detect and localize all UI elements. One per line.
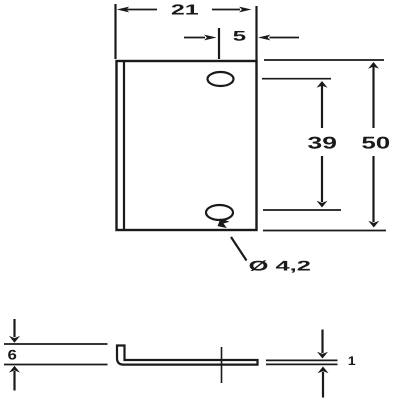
dim 6: value label	[8, 350, 16, 360]
extension line bottom hole center (for dim 39)	[263, 209, 341, 211]
dim 5: left arrowhead (points right)	[204, 35, 216, 41]
dim 1: upper arrow tail	[321, 330, 323, 354]
extension line top hole center (for dim 39)	[262, 78, 331, 80]
dim 50: upper arrowhead (points up)	[368, 62, 379, 69]
dim 21: value label	[172, 4, 198, 14]
dim 1: lower arrowhead (points up)	[318, 367, 329, 374]
dim 50: value label	[362, 137, 389, 149]
dim 39: lower arrowhead (points down)	[317, 201, 328, 208]
dim 39: upper arrowhead (points up)	[317, 81, 328, 88]
dim 6: upper arrowhead (points down)	[9, 336, 20, 343]
dim 50: lower arrowhead (points down)	[368, 221, 379, 228]
bend line (inner left edge)	[123, 61, 125, 231]
dim 6: bottom extension line	[4, 364, 108, 366]
dim 1: bottom extension line	[266, 363, 338, 365]
dim 21: dimension line left part	[125, 9, 157, 11]
dim 21: left arrowhead	[117, 7, 129, 13]
extension line plate bottom (for dim 50)	[263, 230, 386, 232]
dim 50: lower line	[372, 156, 374, 222]
dim 21: right arrowhead	[239, 7, 251, 13]
dim 21: dimension line right part	[212, 9, 240, 11]
dim 5: right arrowhead (points left)	[258, 35, 270, 41]
dim 1: value label	[349, 356, 355, 365]
bracket cross-section (side view)	[117, 346, 258, 365]
extension line plate top (for dim 50)	[264, 59, 384, 61]
dim 6: lower arrow tail	[13, 371, 15, 391]
hole top	[208, 72, 234, 86]
dim 6: upper arrow tail	[13, 319, 15, 337]
dim 6: lower arrowhead (points up)	[9, 366, 20, 373]
dim 39: value label	[308, 137, 336, 149]
dim 5: value label	[233, 31, 245, 41]
plate outline (top view)	[117, 61, 257, 230]
dim 50: upper line	[372, 66, 374, 128]
dim 21: left extension line	[114, 4, 116, 59]
dim 1: lower arrow tail	[322, 372, 324, 398]
hole diameter label	[250, 260, 310, 272]
dim 5: hole axis tick	[218, 28, 220, 59]
dim 5: right arrow tail	[270, 37, 300, 39]
leader line	[231, 237, 247, 261]
dim 6: top extension line	[4, 343, 108, 345]
dim 39: lower line	[321, 156, 323, 202]
dim 21: right extension line	[255, 6, 257, 61]
leader arrowhead to bottom hole	[218, 219, 230, 229]
hole axis center line (side view)	[221, 347, 223, 383]
dim 1: top extension line	[266, 359, 338, 361]
dim 5: left arrow tail	[184, 37, 205, 39]
hole bottom	[206, 205, 233, 220]
dim 39: upper line	[321, 85, 323, 128]
dim 1: upper arrowhead (points down)	[317, 352, 328, 359]
